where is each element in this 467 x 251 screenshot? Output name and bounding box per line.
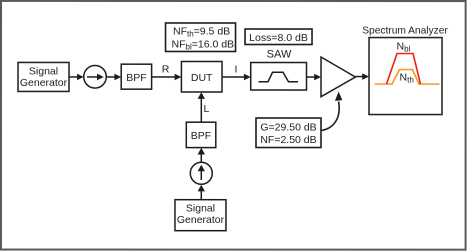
svg-text:NFth=9.5 dB: NFth=9.5 dB xyxy=(173,25,230,38)
svg-text:BPF: BPF xyxy=(126,72,146,84)
svg-text:NFbl=16.0 dB: NFbl=16.0 dB xyxy=(172,38,235,51)
svg-text:Generator: Generator xyxy=(177,214,225,226)
svg-text:R: R xyxy=(162,63,170,75)
svg-text:DUT: DUT xyxy=(191,72,213,84)
svg-text:BPF: BPF xyxy=(191,130,211,142)
svg-text:G=29.50 dB: G=29.50 dB xyxy=(260,122,316,134)
svg-text:Signal: Signal xyxy=(186,202,215,214)
svg-text:Generator: Generator xyxy=(20,77,68,89)
svg-text:Spectrum Analyzer: Spectrum Analyzer xyxy=(362,26,448,37)
svg-text:L: L xyxy=(204,103,210,115)
svg-text:Loss=8.0 dB: Loss=8.0 dB xyxy=(249,32,308,44)
svg-text:Signal: Signal xyxy=(29,65,58,77)
svg-text:NF=2.50 dB: NF=2.50 dB xyxy=(260,134,316,146)
svg-text:I: I xyxy=(235,63,238,75)
svg-text:SAW: SAW xyxy=(267,48,292,60)
